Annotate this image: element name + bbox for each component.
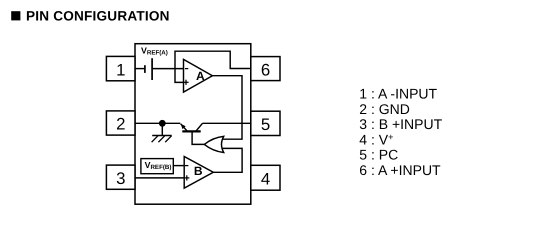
svg-text:6: 6 <box>261 60 270 79</box>
svg-text:VREF(A): VREF(A) <box>141 45 168 56</box>
svg-text:4 : V+: 4 : V+ <box>359 131 393 147</box>
svg-text:B: B <box>194 164 203 178</box>
svg-text:5 : PC: 5 : PC <box>359 147 398 163</box>
svg-text:2: 2 <box>116 115 125 134</box>
svg-text:4: 4 <box>261 169 270 188</box>
svg-text:1: 1 <box>116 60 125 79</box>
svg-text:3: 3 <box>116 169 125 188</box>
svg-text:PIN CONFIGURATION: PIN CONFIGURATION <box>26 9 170 24</box>
svg-text:5: 5 <box>261 115 270 134</box>
svg-text:3 : B +INPUT: 3 : B +INPUT <box>359 116 442 132</box>
svg-text:2 : GND: 2 : GND <box>359 101 410 117</box>
svg-text:1 : A -INPUT: 1 : A -INPUT <box>359 86 437 102</box>
svg-text:6 : A +INPUT: 6 : A +INPUT <box>359 162 441 178</box>
svg-text:A: A <box>196 69 205 83</box>
